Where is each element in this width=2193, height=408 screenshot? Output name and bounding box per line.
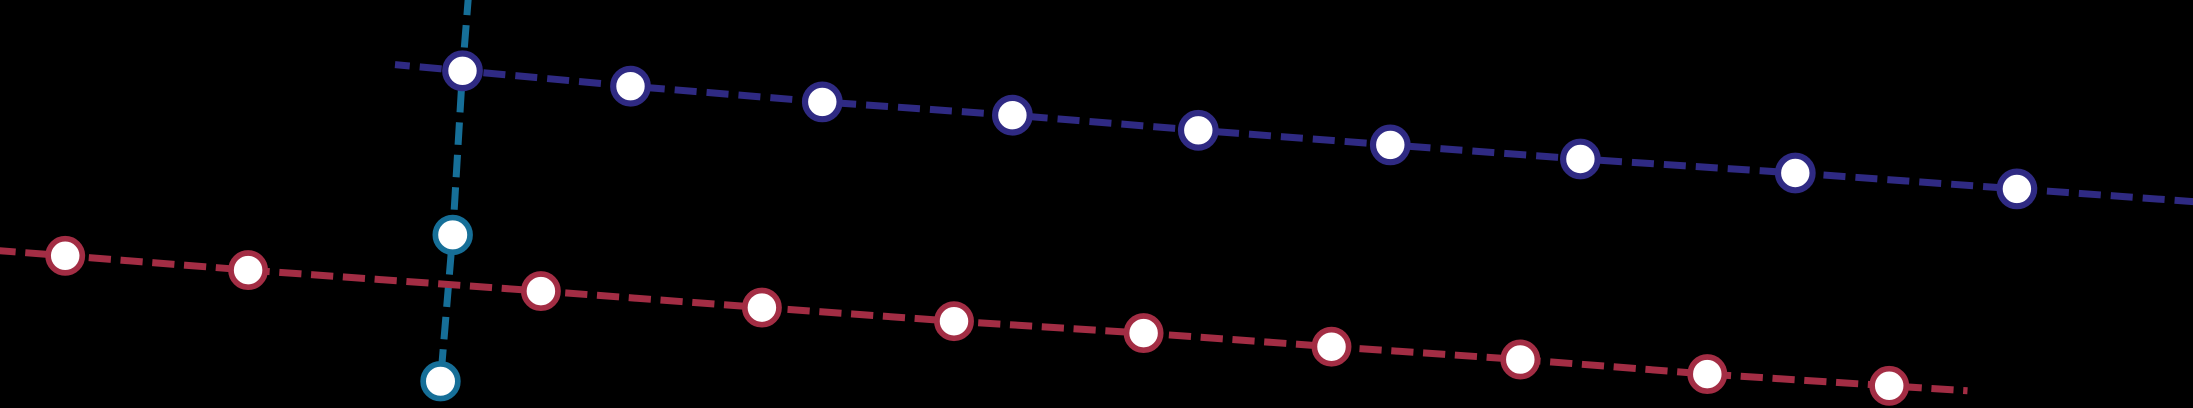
red station R9 bbox=[1690, 357, 1724, 391]
red station R4 bbox=[745, 291, 779, 325]
red station R2 bbox=[231, 253, 265, 287]
red station R7 bbox=[1314, 330, 1348, 364]
blue station B9 bbox=[2000, 172, 2035, 207]
red station R10 bbox=[1872, 369, 1906, 403]
blue station B7 bbox=[1563, 142, 1598, 177]
red station R8 bbox=[1503, 342, 1537, 376]
blue line (upper route) bbox=[395, 65, 2193, 202]
red station R1 bbox=[48, 239, 82, 273]
teal station T2 bbox=[435, 218, 470, 253]
blue station B5 bbox=[1181, 113, 1216, 148]
red line (lower route) bbox=[0, 250, 1968, 391]
teal line (near-vertical route) bbox=[441, 0, 469, 381]
blue station B3 bbox=[805, 85, 840, 120]
blue station B6 bbox=[1373, 128, 1408, 163]
red station R6 bbox=[1127, 316, 1161, 350]
blue station B8 bbox=[1778, 156, 1813, 191]
teal station T3 bbox=[423, 364, 458, 399]
blue interchange station B1 (on teal line) bbox=[445, 54, 480, 89]
red station R3 bbox=[524, 274, 558, 308]
blue station B4 bbox=[995, 98, 1030, 133]
blue station B2 bbox=[613, 69, 648, 104]
red station R5 bbox=[937, 304, 971, 338]
